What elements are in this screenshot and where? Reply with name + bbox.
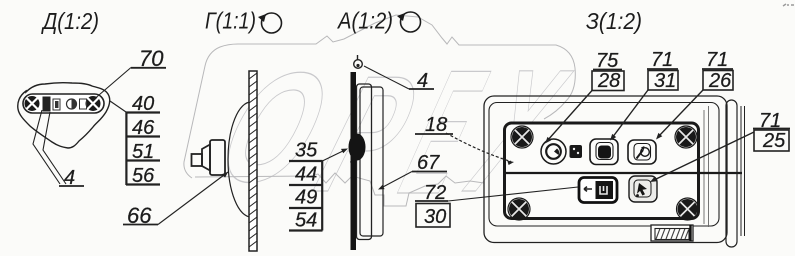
screw TL bbox=[511, 126, 533, 148]
knob side view bbox=[192, 140, 226, 175]
button 2 bbox=[628, 140, 656, 164]
leaders to 4 bbox=[33, 110, 60, 184]
stack 35 44 49 54 bbox=[289, 161, 323, 231]
svg-text:25: 25 bbox=[762, 130, 786, 152]
leader 4 A bbox=[364, 66, 409, 89]
right bracket narrow bbox=[726, 100, 737, 247]
ellipse arc bbox=[228, 102, 251, 217]
outer case B bbox=[489, 103, 719, 227]
stack 40 46 51 56 bbox=[126, 112, 160, 185]
hatched bar G bbox=[249, 71, 257, 251]
svg-text:28: 28 bbox=[597, 70, 620, 92]
svg-text:31: 31 bbox=[654, 70, 676, 92]
svg-text:18: 18 bbox=[425, 114, 447, 136]
plate screw right bbox=[86, 96, 101, 111]
face plate bbox=[505, 123, 699, 219]
blob outline bbox=[18, 83, 110, 148]
svg-text:40: 40 bbox=[132, 93, 154, 115]
svg-text:З(1:2): З(1:2) bbox=[586, 8, 642, 34]
leader 18 dashed bbox=[446, 133, 511, 162]
leader 67 bbox=[381, 172, 412, 189]
svg-text:26: 26 bbox=[708, 70, 732, 92]
svg-text:49: 49 bbox=[295, 187, 317, 209]
svg-text:56: 56 bbox=[132, 165, 155, 187]
watermark banner outline bottom bbox=[195, 173, 484, 206]
svg-text:51: 51 bbox=[132, 141, 154, 163]
rotation symbol A bbox=[401, 12, 421, 32]
svg-text:54: 54 bbox=[295, 210, 317, 232]
wide button bbox=[579, 178, 617, 203]
leader 66 bbox=[158, 172, 228, 225]
svg-text:30: 30 bbox=[424, 206, 446, 228]
leader 70 bbox=[92, 68, 131, 102]
button 1 bbox=[590, 139, 618, 165]
watermark corner mark top right bbox=[783, 4, 794, 6]
screw BR bbox=[677, 198, 699, 220]
outer case A bbox=[484, 96, 727, 243]
leader stack1 bbox=[110, 101, 126, 112]
cursor button bbox=[629, 176, 657, 202]
svg-text:А(1:2): А(1:2) bbox=[336, 8, 393, 34]
knob Z bbox=[541, 139, 566, 164]
plate bbox=[23, 94, 104, 113]
panel bar A bbox=[351, 72, 357, 250]
plate screw left bbox=[25, 96, 40, 111]
connector bottom bbox=[651, 225, 693, 241]
svg-text:Г(1:1): Г(1:1) bbox=[205, 8, 256, 34]
right bracket lines bbox=[741, 106, 745, 236]
svg-text:71: 71 bbox=[706, 49, 728, 71]
plate icons middle bbox=[43, 97, 87, 112]
leader stack2 bbox=[322, 150, 345, 161]
housing front bbox=[357, 84, 372, 240]
knob A bbox=[349, 134, 366, 161]
rotation symbol G bbox=[262, 13, 282, 33]
svg-text:Д(1:2): Д(1:2) bbox=[40, 8, 99, 34]
box 30 bbox=[416, 204, 450, 228]
screw TR bbox=[675, 126, 697, 148]
bolt on top bbox=[357, 55, 359, 60]
svg-text:46: 46 bbox=[132, 117, 155, 139]
screw BL bbox=[508, 198, 530, 220]
svg-text:71: 71 bbox=[651, 49, 673, 71]
side depth line bbox=[704, 106, 709, 227]
divider bbox=[504, 172, 742, 174]
leader 72 bbox=[448, 187, 578, 201]
svg-text:35: 35 bbox=[295, 140, 318, 162]
housing back bbox=[360, 87, 383, 236]
watermark banner outline top bbox=[184, 15, 575, 178]
mini icon right of knob bbox=[570, 145, 583, 158]
svg-text:44: 44 bbox=[295, 164, 317, 186]
watermark letters OREX bbox=[200, 33, 588, 231]
